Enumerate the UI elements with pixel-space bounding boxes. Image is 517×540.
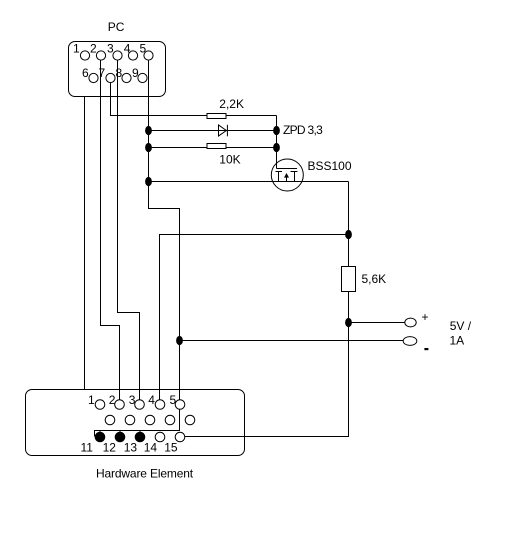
svg-text:2: 2	[109, 393, 116, 407]
HW pin 15	[164, 432, 185, 454]
HW middle row pin d	[165, 415, 175, 425]
svg-text:4: 4	[148, 393, 155, 407]
junction dot node below R3 plus	[345, 318, 352, 327]
svg-text:ZPD 3,3: ZPD 3,3	[283, 123, 323, 137]
HW pin 2	[109, 393, 124, 409]
PC pin 4	[124, 42, 138, 61]
resistor R3 5,6K	[342, 267, 387, 292]
svg-text:5: 5	[140, 42, 147, 56]
wire node y234 to HW pin4	[160, 235, 349, 405]
svg-text:5,6K: 5,6K	[362, 272, 387, 286]
wire PC pin5 ground trunk to HW pin5 and bus	[95, 60, 180, 437]
PC pin 5	[140, 42, 154, 61]
svg-text:14: 14	[144, 441, 158, 455]
wire source line from ground node through transistor Q1	[149, 181, 349, 183]
svg-text:+: +	[422, 310, 429, 324]
terminal minus	[403, 337, 428, 351]
HW pin 11 filled	[81, 432, 105, 454]
junction dot minus node	[176, 336, 183, 345]
junction dot node above R3	[345, 230, 352, 239]
svg-text:BSS100: BSS100	[308, 159, 352, 173]
HW pin 4	[148, 393, 165, 409]
wire PC pin7 to resistor R1 2,2K	[111, 83, 208, 116]
PC pin 1	[73, 42, 90, 61]
wire resistor R2 10K line	[149, 147, 277, 149]
PC pin 6	[82, 66, 98, 83]
wire minus terminal line	[180, 340, 404, 342]
connector Hardware Element body	[26, 390, 245, 456]
svg-text:3: 3	[129, 393, 136, 407]
junction dot diode right	[273, 126, 280, 135]
label 5V / 1A	[450, 319, 472, 348]
svg-text:4: 4	[124, 42, 131, 56]
HW pin 5	[170, 393, 185, 409]
svg-text:11: 11	[81, 441, 94, 455]
PC pin 9	[132, 66, 147, 83]
svg-text:5: 5	[170, 393, 177, 407]
HW pin 13 filled	[124, 432, 145, 454]
wire vertical node x276 to transistor drain	[276, 116, 278, 169]
wire resistor R1 right to node at x276	[226, 115, 277, 117]
junction dot source line left	[145, 177, 152, 186]
svg-text:1: 1	[88, 393, 95, 407]
label Hardware Element	[96, 467, 194, 481]
wire transistor source down to node	[348, 182, 350, 267]
wire diode line	[149, 130, 277, 132]
connector PC body	[69, 42, 166, 97]
label PC	[108, 20, 125, 34]
HW pin 3	[129, 393, 145, 409]
svg-text:8: 8	[116, 66, 123, 80]
svg-text:12: 12	[103, 441, 117, 455]
resistor R1 2,2K	[207, 97, 244, 119]
svg-text:9: 9	[132, 66, 139, 80]
PC pin 2	[90, 42, 106, 61]
wire plus terminal line	[349, 322, 405, 324]
wire resistor R3 bottom to plus terminal and HW pin15	[185, 292, 349, 437]
HW pin 14	[144, 432, 165, 454]
terminal plus	[405, 310, 429, 327]
svg-text:PC: PC	[108, 20, 125, 34]
junction dot 10K right	[273, 143, 280, 152]
junction dot 10K left	[145, 143, 152, 152]
svg-text:1A: 1A	[450, 334, 465, 348]
svg-text:10K: 10K	[219, 153, 240, 167]
svg-text:15: 15	[164, 441, 178, 455]
HW middle row pin b	[125, 415, 135, 425]
PC pin 3	[107, 42, 122, 61]
svg-text:13: 13	[124, 441, 138, 455]
svg-text:Hardware Element: Hardware Element	[96, 467, 194, 481]
svg-text:6: 6	[82, 66, 89, 80]
HW middle row pin e	[185, 415, 195, 425]
junction dot diode left	[145, 126, 152, 135]
svg-text:1: 1	[73, 42, 80, 56]
HW middle row pin c	[145, 415, 155, 425]
wire PC shield to Hardware Element shield	[84, 97, 86, 390]
HW pin 1	[88, 393, 105, 409]
diode D1 ZPD 3,3	[219, 123, 324, 137]
svg-text:2,2K: 2,2K	[219, 97, 244, 111]
transistor Q1 BSS100	[271, 159, 352, 191]
wire PC pin3 to HW pin3	[118, 60, 140, 404]
wire PC pin2 to HW pin2	[101, 60, 120, 404]
PC pin 7	[99, 66, 116, 83]
HW middle row pin a	[105, 415, 115, 425]
PC pin 8	[116, 66, 132, 83]
svg-text:3: 3	[107, 42, 114, 56]
HW pin 12 filled	[103, 432, 125, 454]
svg-text:2: 2	[90, 42, 97, 56]
svg-text:7: 7	[99, 66, 106, 80]
svg-text:5V /: 5V /	[450, 319, 472, 333]
resistor R2 10K	[207, 144, 241, 167]
wire bus stubs to pins 11 12 13	[100, 431, 140, 435]
